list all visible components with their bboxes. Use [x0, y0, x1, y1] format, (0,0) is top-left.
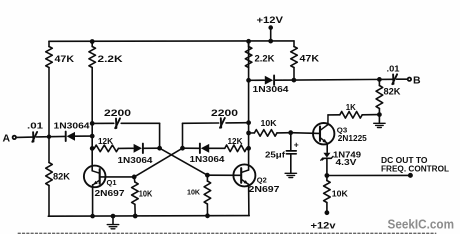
svg-text:12K: 12K	[228, 136, 244, 146]
wire Q2 base lead	[207, 174, 240, 176]
transistor Q1 2N697	[84, 166, 125, 217]
power +12v bottom terminal	[311, 211, 336, 231]
wire diode row b	[274, 79, 294, 81]
transistor Q2 2N697	[233, 164, 279, 215]
svg-text:82K: 82K	[384, 86, 402, 96]
scan artifact bottom line	[18, 232, 436, 234]
wire top supply rail	[49, 40, 294, 42]
diode 1N3064 input	[54, 120, 90, 141]
terminal DC out	[408, 173, 412, 177]
zener diode 1N749 4.3V	[321, 149, 361, 167]
resistor 10K Q1 base	[132, 177, 153, 216]
wire bottom emitter rail	[48, 215, 249, 218]
capacitor .01 output	[387, 64, 400, 85]
resistor 12K right	[209, 136, 248, 151]
junction 25uF node	[289, 131, 293, 135]
resistor 2.2K right	[245, 41, 275, 67]
junction Q2 base node	[206, 173, 210, 177]
junction 47K right / B wire	[292, 78, 296, 82]
svg-text:1N3064: 1N3064	[54, 120, 90, 130]
svg-text:1N3064: 1N3064	[190, 154, 225, 164]
resistor 2.2K left	[89, 42, 123, 68]
junction 82K / 1K / ground	[378, 113, 382, 117]
junction ground tap	[111, 214, 115, 218]
wire Q1 collector column	[91, 68, 93, 171]
resistor 47K left	[46, 41, 75, 67]
junction 82K right / B wire	[378, 78, 382, 82]
diode 1N3064 lower right	[190, 144, 225, 164]
svg-text:SeekIC.com: SeekIC.com	[388, 217, 455, 231]
junction +12V on top rail	[269, 39, 273, 43]
svg-text:10K: 10K	[139, 188, 153, 198]
svg-text:1N3064: 1N3064	[118, 155, 153, 165]
wire cross to diode right	[183, 147, 200, 149]
power +12V terminal	[257, 15, 284, 41]
svg-text:4.3V: 4.3V	[336, 157, 357, 167]
junction 12K left / column	[90, 147, 94, 151]
resistor 47K right	[291, 41, 320, 80]
junction cross node right	[181, 146, 185, 150]
svg-text:+12v: +12v	[311, 221, 336, 231]
svg-text:2N1225: 2N1225	[338, 133, 367, 143]
svg-text:2N697: 2N697	[95, 188, 125, 198]
junction Q1 emitter / rail	[91, 214, 95, 218]
svg-text:2.2K: 2.2K	[255, 54, 276, 64]
junction 2200 left / column	[90, 122, 94, 126]
wire cap to terminal B	[397, 78, 408, 80]
wire diagonal to Q1 base	[134, 148, 182, 177]
terminal A	[3, 133, 17, 145]
wire diagonal to Q2 base	[160, 148, 208, 175]
wire 12K to diode left	[118, 147, 133, 149]
svg-text:2.2K: 2.2K	[98, 54, 124, 64]
capacitor 25uF	[265, 133, 299, 173]
svg-text:2200: 2200	[211, 108, 238, 118]
wire cap to diode	[36, 135, 65, 138]
svg-text:12K: 12K	[98, 136, 114, 146]
svg-text:1K: 1K	[346, 102, 357, 112]
wire to Q3 base	[291, 132, 320, 135]
svg-text:+: +	[294, 139, 299, 149]
transistor Q3 2N1225	[313, 115, 367, 152]
svg-text:1N3064: 1N3064	[253, 84, 289, 94]
resistor 10K bottom	[324, 176, 349, 212]
junction 10K feed / column	[247, 131, 251, 135]
svg-text:2N697: 2N697	[249, 184, 280, 194]
wire diode to Q1 collector node	[75, 135, 92, 137]
wire diode to cross node left	[143, 147, 160, 149]
wire 2200 right segment a	[183, 122, 219, 124]
diode 1N3064 lower left	[118, 144, 153, 165]
capacitor 2200 right	[211, 108, 238, 128]
resistor 82K left	[46, 137, 71, 217]
svg-text:10K: 10K	[261, 118, 278, 128]
ground right	[374, 115, 385, 128]
junction A wire / Q1 collector column	[90, 134, 94, 138]
wire 2200 left drop	[159, 123, 161, 148]
svg-text:.01: .01	[387, 64, 400, 74]
wire B output	[294, 78, 393, 81]
wire 2200 left segment a	[92, 122, 114, 124]
junction input node / 47K / 82K	[47, 135, 50, 138]
wire 47K left to input node	[48, 68, 50, 137]
watermark SeekIC.com	[388, 217, 455, 231]
terminal B	[408, 74, 421, 86]
label DC OUT TO	[381, 156, 428, 165]
capacitor 2200 left	[104, 108, 131, 128]
wire 2200 left segment b	[121, 122, 159, 124]
junction 10K left / rail	[133, 214, 137, 218]
svg-text:Q1: Q1	[107, 178, 117, 187]
ground main	[107, 216, 118, 229]
wire input A segment	[16, 136, 33, 138]
resistor 1K	[328, 102, 379, 118]
wire Q1 base lead	[101, 176, 135, 178]
wire zener to DC node	[326, 158, 328, 175]
ground 25uF	[285, 172, 296, 177]
junction 2200 right / column	[247, 121, 251, 125]
svg-text:10K: 10K	[332, 189, 349, 199]
svg-text:10K: 10K	[187, 188, 201, 197]
junction Q1 base node	[132, 175, 136, 179]
svg-text:2200: 2200	[104, 108, 131, 118]
svg-text:25μf: 25μf	[265, 149, 285, 159]
junction cross node left	[158, 146, 162, 150]
junction 2.2K right / diode wire	[247, 78, 251, 82]
svg-text:B: B	[413, 74, 421, 86]
svg-text:A: A	[3, 133, 11, 145]
wire DC out	[327, 174, 410, 176]
wire 2200 right drop	[182, 123, 184, 148]
diode 1N3064 top	[253, 76, 289, 95]
junction top rail / 2.2K right	[247, 39, 251, 43]
svg-text:82K: 82K	[53, 172, 71, 182]
capacitor .01 input	[27, 120, 43, 142]
wire 2200 right segment b	[226, 122, 249, 124]
svg-text:+12V: +12V	[257, 15, 284, 25]
resistor 12K left	[94, 136, 118, 152]
wire diode row a	[249, 79, 265, 81]
junction 12K right / column	[247, 146, 251, 150]
junction top rail / 2.2K left	[90, 40, 94, 44]
junction DC out node	[325, 174, 329, 178]
svg-text:47K: 47K	[300, 54, 320, 64]
junction 10K right / rail	[206, 214, 210, 218]
svg-text:47K: 47K	[55, 54, 75, 64]
wire Q2 collector column	[248, 41, 250, 170]
resistor 10K Q2 base	[187, 175, 211, 216]
svg-text:.01: .01	[27, 120, 43, 130]
label FREQ CONTROL	[381, 165, 449, 174]
svg-text:FREQ. CONTROL: FREQ. CONTROL	[381, 165, 449, 174]
resistor 82K right	[376, 79, 401, 114]
resistor 10K Q3 feed	[249, 118, 291, 136]
